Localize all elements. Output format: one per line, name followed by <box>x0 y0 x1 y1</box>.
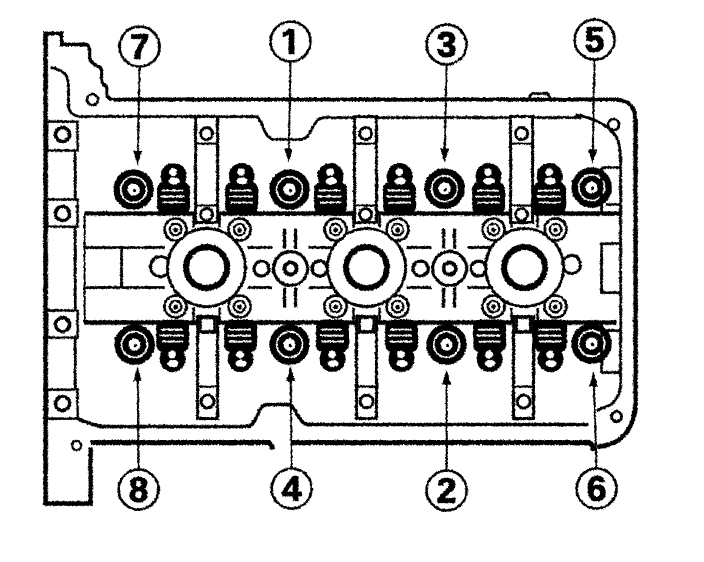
cylinder head left flange outer edge <box>43 33 48 505</box>
arrow 1 <box>288 61 290 149</box>
scanned-drawing roughen wrapper <box>43 19 635 510</box>
bottom lower edge left run <box>90 442 272 449</box>
bottom cam pedestal 1 <box>197 316 217 418</box>
boss 1 ear bolt bottom-right <box>228 295 250 317</box>
arrow 5 <box>592 59 594 150</box>
spark plug boss 1 <box>167 214 245 320</box>
gallery band bottom line <box>84 320 616 325</box>
right plate edges <box>601 167 620 372</box>
top cam pedestal 1 <box>195 116 217 222</box>
head bolt 6 <box>574 326 608 360</box>
callout 3 <box>426 24 466 64</box>
head bolt 5 <box>574 170 608 204</box>
valve spring top row 4 <box>383 163 416 215</box>
bottom-right bolt hole <box>611 411 621 421</box>
callout 2 <box>426 470 466 510</box>
boss 2 ear bolt bottom-right <box>386 295 408 317</box>
arrow 7 <box>137 66 139 151</box>
top-left tab <box>43 33 84 44</box>
top-right bolt hole <box>608 119 619 130</box>
valve spring bottom row 2 <box>224 319 257 372</box>
valve spring top row 2 <box>225 163 258 215</box>
valve spring bottom row 4 <box>385 319 418 372</box>
band right channel lines <box>600 243 619 292</box>
top outer edge <box>113 97 617 101</box>
boss 3 ear bolt top-left <box>482 218 504 240</box>
valve spring top row 3 <box>314 163 347 215</box>
flange pad 1 <box>47 121 78 150</box>
flange pad 2 <box>47 199 78 226</box>
valve spring top row 1 <box>157 163 190 215</box>
boss 1 ear bolt top-right <box>228 218 250 240</box>
arrow 6 <box>593 386 596 468</box>
head bolt 3 <box>427 171 461 205</box>
bottom-right inner contour <box>596 383 620 410</box>
boss 2 ear bolt bottom-left <box>324 295 346 317</box>
arrow 8 <box>136 381 139 469</box>
flange pad 3 <box>47 310 78 337</box>
callout 8 <box>118 469 158 509</box>
body inner vertical <box>83 213 85 322</box>
top-left stepped corner <box>84 44 114 99</box>
boss 3 ear bolt bottom-left <box>482 295 504 317</box>
callout 7 <box>119 26 159 66</box>
top-left bolt hole <box>87 94 98 105</box>
boss 2 ear bolt top-left <box>324 218 346 240</box>
top cam pedestal 3 <box>510 116 532 222</box>
boss 1 ear bolt top-left <box>164 218 186 240</box>
head bolt 1 <box>272 172 306 206</box>
arrow 2 <box>445 384 447 470</box>
boss 3 ear bolt top-right <box>544 218 566 240</box>
mid unit 2 <box>406 228 492 307</box>
spark plug boss 3 <box>485 214 563 320</box>
bottom cam pedestal 2 <box>356 316 376 418</box>
bottom lower edge right run <box>290 442 593 450</box>
head bolt 4 <box>272 327 306 361</box>
valve spring bottom row 3 <box>316 319 349 372</box>
callout 4 <box>271 468 311 508</box>
boss 1 ear bolt bottom-left <box>164 295 186 317</box>
spark plug boss 2 <box>327 214 405 320</box>
callout 5 <box>574 19 614 59</box>
right outer edge <box>633 119 638 406</box>
top-right inner contour <box>575 114 620 385</box>
top cam pedestal 2 <box>354 116 376 222</box>
bottom-left foot <box>45 447 90 503</box>
valve spring bottom row 1 <box>156 319 189 372</box>
bottom-right outer corner <box>597 404 635 446</box>
valve spring bottom row 6 <box>534 319 567 372</box>
bottom-left small hole <box>72 441 81 450</box>
head bolt 7 <box>116 172 150 206</box>
flange inner vertical <box>73 150 76 389</box>
boss 3 ear bolt bottom-right <box>544 295 566 317</box>
top edge notch <box>528 93 550 98</box>
top-left inner contour <box>50 67 78 116</box>
boss 2 ear bolt top-right <box>386 218 408 240</box>
arrow 4 <box>289 381 292 468</box>
band right small circle <box>562 255 580 273</box>
top-right outer corner <box>617 99 635 121</box>
head bolt 2 <box>429 327 463 361</box>
gallery band top line <box>84 211 619 216</box>
mid unit 1 <box>247 228 333 307</box>
valve spring top row 6 <box>533 163 566 215</box>
callout 1 <box>270 21 310 61</box>
top inner edge with dip <box>78 116 581 139</box>
valve spring bottom row 5 <box>473 319 506 372</box>
valve spring top row 5 <box>472 163 505 215</box>
band left small circle <box>150 256 170 276</box>
band left channel lines <box>84 247 164 287</box>
arrow 3 <box>444 64 446 149</box>
bottom upper wavy contour <box>77 404 588 426</box>
bottom cam pedestal 3 <box>513 316 533 418</box>
callout 6 <box>576 468 616 508</box>
flange pad 4 <box>47 389 78 418</box>
head bolt 8 <box>117 327 151 361</box>
